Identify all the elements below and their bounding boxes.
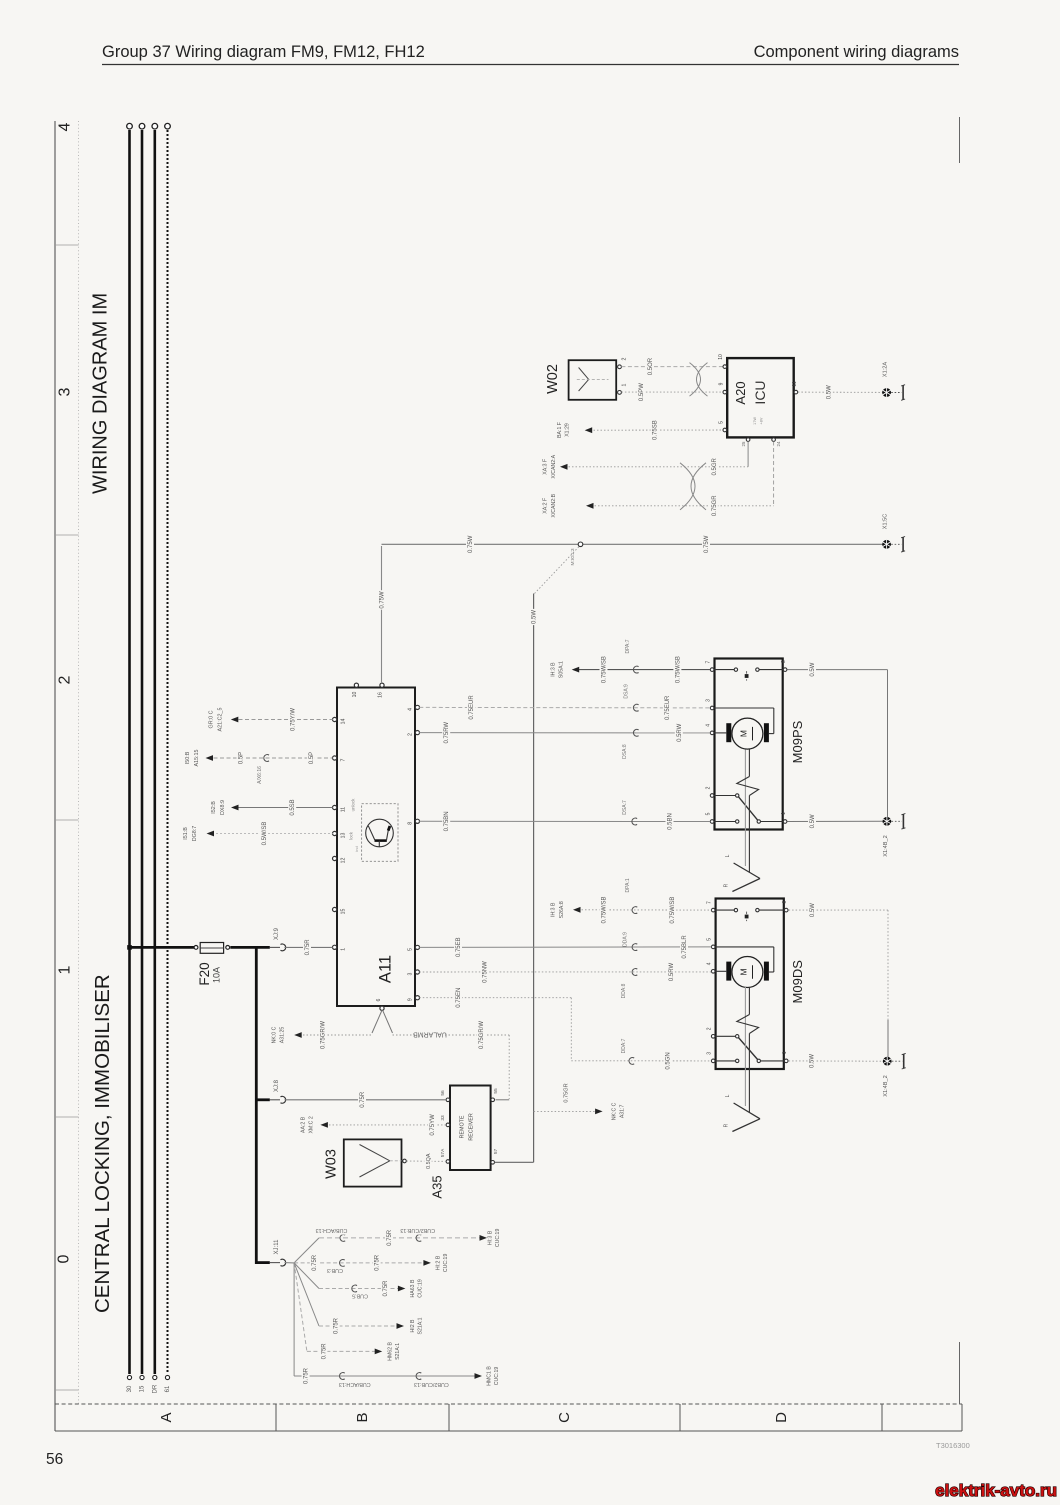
- svg-text:X/CAN2:A: X/CAN2:A: [551, 454, 557, 478]
- svg-text:A: A: [158, 1412, 175, 1422]
- svg-text:DPA:1: DPA:1: [625, 878, 631, 892]
- svg-text:0.5W: 0.5W: [827, 385, 833, 399]
- svg-text:HA63 B: HA63 B: [410, 1279, 416, 1297]
- svg-text:9: 9: [719, 382, 725, 385]
- svg-text:0.75W/SB: 0.75W/SB: [602, 896, 608, 923]
- svg-text:5: 5: [719, 421, 725, 424]
- svg-text:S05A:1: S05A:1: [558, 661, 564, 678]
- svg-text:W03: W03: [323, 1149, 339, 1179]
- svg-text:CUB/ACH:13: CUB/ACH:13: [339, 1381, 371, 1387]
- svg-text:CUC:19: CUC:19: [443, 1254, 449, 1273]
- svg-text:M:IG1:3: M:IG1:3: [570, 548, 576, 565]
- svg-text:0.5W: 0.5W: [810, 662, 816, 676]
- svg-text:1: 1: [781, 812, 787, 815]
- svg-text:4: 4: [56, 122, 73, 131]
- svg-text:15: 15: [140, 1385, 146, 1392]
- svg-text:8: 8: [782, 900, 788, 903]
- A11 bottom pin 6: [376, 998, 384, 1010]
- A11 key switch symbol: [348, 798, 398, 861]
- wire A35 pin33 to AA:2 B XM:C 2: [300, 1114, 446, 1137]
- svg-text:A15:15: A15:15: [194, 749, 200, 766]
- svg-text:11: 11: [792, 381, 798, 386]
- wire XJ:8 to A35 pin56 0.75R: [285, 1090, 447, 1110]
- title WIRING DIAGRAM IM: [90, 293, 112, 494]
- wire A11 pin3 to M09DS pin4 0.75NW: [419, 961, 711, 999]
- svg-text:12: 12: [340, 858, 346, 864]
- svg-text:6: 6: [376, 998, 382, 1001]
- svg-text:HI2 B: HI2 B: [410, 1319, 416, 1333]
- M09DS internal door switch: [716, 908, 784, 921]
- svg-text:2: 2: [407, 733, 413, 736]
- svg-text:WIRING DIAGRAM IM: WIRING DIAGRAM IM: [90, 293, 112, 494]
- svg-text:1: 1: [340, 948, 346, 951]
- svg-text:CUB:5: CUB:5: [352, 1293, 368, 1299]
- svg-text:0.75W/SB: 0.75W/SB: [675, 656, 681, 683]
- wire A11 pin4 to M09PS pin3 0.75EUR: [419, 684, 710, 721]
- svg-text:0.5RW: 0.5RW: [669, 963, 675, 982]
- svg-text:33: 33: [440, 1115, 446, 1121]
- M09PS internal lock switch: [715, 794, 783, 823]
- svg-text:0.75W: 0.75W: [380, 591, 386, 609]
- svg-text:IH:3 B: IH:3 B: [550, 902, 556, 917]
- svg-text:HI:3 B: HI:3 B: [488, 1230, 494, 1245]
- title CENTRAL LOCKING, IMMOBILISER: [91, 974, 114, 1313]
- svg-text:A11: A11: [377, 955, 395, 983]
- frame scale number 0: [55, 1254, 72, 1263]
- svg-text:7: 7: [706, 660, 712, 663]
- svg-text:X1:4B_2: X1:4B_2: [883, 835, 889, 856]
- svg-text:DPA:7: DPA:7: [625, 639, 631, 653]
- frame column letter D: [773, 1412, 790, 1423]
- svg-text:M09PS: M09PS: [790, 720, 805, 763]
- svg-text:XJ:8: XJ:8: [274, 1079, 280, 1092]
- svg-text:0.5QA: 0.5QA: [426, 1153, 432, 1169]
- wire W02 pin2 to A20 pin10 0.5OR: [621, 357, 722, 377]
- wire fan XJ:11 feed: [285, 1262, 295, 1264]
- frame bottom band: [55, 1404, 962, 1431]
- svg-text:0.75SB: 0.75SB: [653, 420, 659, 440]
- A11 left pins: [333, 717, 347, 950]
- frame scale number 4: [56, 122, 73, 131]
- svg-text:X1:4B_2: X1:4B_2: [883, 1075, 889, 1096]
- junction XJ:9: [270, 927, 286, 950]
- svg-text:DDA:8: DDA:8: [621, 983, 627, 998]
- svg-text:0.75R: 0.75R: [321, 1343, 327, 1360]
- M09PS internal door switch: [715, 668, 783, 681]
- svg-text:DX8:9: DX8:9: [220, 800, 226, 815]
- svg-text:M: M: [738, 968, 748, 975]
- svg-text:0.5W: 0.5W: [532, 610, 538, 624]
- bus bar DR: [152, 123, 158, 1393]
- net name UALARMB: [413, 1031, 447, 1040]
- wire A11 pin2 to M09PS pin4 0.75RW: [419, 721, 710, 759]
- svg-text:CUB/ACH:13: CUB/ACH:13: [316, 1227, 348, 1233]
- wire fan branch 5 to HM62 B S21A:1: [294, 1263, 401, 1361]
- junction XJ:11: [270, 1239, 286, 1266]
- svg-text:CUB:3: CUB:3: [327, 1267, 343, 1273]
- svg-text:2: 2: [56, 675, 73, 684]
- svg-text:R: R: [724, 883, 730, 887]
- wire fan branch 6 to HMC1 B CUC:19: [294, 1263, 500, 1389]
- A20 bottom pins: [741, 438, 781, 447]
- frame scale number 3: [56, 387, 73, 396]
- ground X1:2A: [882, 362, 905, 401]
- wire A20 CAN low to XA:2 F X/CAN2:B: [543, 442, 774, 518]
- svg-text:I50:B: I50:B: [185, 751, 191, 764]
- svg-text:NK:0 C: NK:0 C: [271, 1026, 277, 1043]
- svg-text:15: 15: [340, 909, 346, 915]
- svg-text:0.75RW: 0.75RW: [444, 722, 450, 744]
- svg-text:XM:C 2: XM:C 2: [309, 1116, 315, 1133]
- svg-text:7: 7: [707, 901, 713, 904]
- svg-text:11: 11: [340, 807, 346, 812]
- page header right title: [754, 43, 959, 61]
- svg-text:unlock: unlock: [350, 798, 355, 811]
- wire UALARMB right branch to A35 pin55: [393, 1020, 510, 1100]
- svg-text:A31:7: A31:7: [620, 1105, 626, 1119]
- svg-text:8: 8: [781, 660, 787, 663]
- wire fan branch 2 to HI:2 B CUC:19: [294, 1253, 449, 1274]
- watermark elektrik-avto.ru: [935, 1481, 1057, 1500]
- svg-text:57A: 57A: [440, 1148, 446, 1157]
- frame scale number 1: [56, 965, 73, 974]
- svg-text:57: 57: [493, 1149, 499, 1155]
- svg-text:3: 3: [407, 972, 413, 975]
- wire A11 pin13 to I51:B DG8:7: [183, 821, 333, 847]
- header rule: [102, 64, 959, 66]
- svg-text:13: 13: [340, 833, 346, 839]
- fuse F20 10A: [194, 943, 230, 986]
- wire M09PS pin8 pin1 to ground X1:4B_2: [788, 662, 888, 830]
- svg-text:7: 7: [340, 758, 346, 761]
- svg-text:CUB2/CUB:13: CUB2/CUB:13: [414, 1381, 449, 1387]
- wire M09DS pin7 to IH:3 B S26A:8: [550, 878, 711, 925]
- frame column letter C: [556, 1412, 573, 1423]
- wire bold feed from bus 30 to fuse F20: [127, 945, 194, 950]
- svg-text:5: 5: [706, 812, 712, 815]
- svg-text:0.75R: 0.75R: [360, 1091, 366, 1108]
- svg-text:NK:C C: NK:C C: [611, 1102, 617, 1120]
- svg-text:F20: F20: [197, 962, 212, 985]
- svg-text:0.5RW: 0.5RW: [677, 723, 683, 742]
- frame right border segments: [959, 117, 961, 1404]
- wire UALARMB left branch to NK:0 C A31:25: [271, 1020, 372, 1049]
- svg-text:0.5W/SB: 0.5W/SB: [262, 822, 268, 846]
- svg-text:0.75NW: 0.75NW: [482, 961, 488, 983]
- svg-text:3: 3: [707, 1052, 713, 1055]
- svg-text:0.75W/SB: 0.75W/SB: [602, 656, 608, 683]
- wire A20 pin5 to BA:1 F X1:29 0.75SB: [557, 419, 723, 442]
- connector A/X6:16 on A11 pin7 wire: [257, 755, 269, 784]
- svg-text:CUC:19: CUC:19: [494, 1367, 500, 1386]
- svg-text:REMOTE: REMOTE: [459, 1115, 465, 1138]
- svg-text:0.75R: 0.75R: [305, 939, 311, 956]
- svg-text:A20: A20: [733, 381, 748, 404]
- svg-text:0.5OR: 0.5OR: [648, 357, 654, 375]
- svg-text:0.75R: 0.75R: [383, 1280, 389, 1297]
- control unit A11 box: [337, 688, 415, 1007]
- M09PS pin circles: [706, 660, 787, 823]
- svg-text:I51:B: I51:B: [183, 827, 189, 840]
- svg-text:CUC:19: CUC:19: [417, 1279, 423, 1298]
- svg-text:Group 37 Wiring diagram FM9, F: Group 37 Wiring diagram FM9, FM12, FH12: [102, 43, 425, 61]
- twisted pair symbol W02 wires: [690, 363, 708, 397]
- svg-text:I52:B: I52:B: [211, 801, 217, 814]
- svg-text:5: 5: [707, 938, 713, 941]
- page number 56: [46, 1451, 63, 1468]
- svg-text:14: 14: [340, 719, 346, 725]
- M09DS pin circles: [707, 900, 788, 1062]
- svg-text:30: 30: [127, 1385, 133, 1392]
- svg-text:0.5GN: 0.5GN: [665, 1052, 671, 1069]
- svg-text:0.75GR/W: 0.75GR/W: [479, 1021, 485, 1049]
- svg-text:R: R: [724, 1123, 730, 1127]
- wire A11 pin16 up to 0.75W rail: [378, 546, 386, 683]
- A20 left pins 10 9 5: [718, 354, 726, 432]
- W02 pins 2 and 1: [618, 357, 628, 394]
- ground X1:4B_2 lower: [883, 1053, 906, 1096]
- svg-text:3: 3: [56, 387, 73, 396]
- svg-text:55: 55: [493, 1088, 499, 1094]
- wire branch to NK:C C A31:7 0.75GR: [534, 1083, 626, 1120]
- frame dotted guide line: [78, 121, 80, 1404]
- svg-text:16: 16: [377, 692, 383, 698]
- svg-text:10: 10: [718, 354, 724, 360]
- wire A11 pin11 to I52:B DX8:9: [211, 798, 333, 818]
- svg-text:HI:2 B: HI:2 B: [435, 1255, 441, 1270]
- svg-text:0.5SB: 0.5SB: [290, 799, 296, 815]
- svg-text:0.5BN: 0.5BN: [668, 813, 674, 830]
- svg-text:25: 25: [741, 441, 746, 446]
- svg-text:IH:3 B: IH:3 B: [550, 662, 556, 677]
- svg-text:0.75R: 0.75R: [334, 1317, 340, 1334]
- wire A35 pin57 to main 0.5W drop: [495, 1161, 534, 1163]
- svg-text:0.75R: 0.75R: [375, 1254, 381, 1271]
- svg-text:A/X6:16: A/X6:16: [257, 766, 263, 784]
- svg-text:56: 56: [46, 1451, 63, 1468]
- antenna W03 box: [323, 1139, 401, 1186]
- frame left border: [54, 121, 56, 1431]
- svg-text:AA:2 B: AA:2 B: [300, 1116, 306, 1133]
- frame tick marks: [55, 245, 79, 1390]
- svg-text:DSA:7: DSA:7: [622, 800, 628, 815]
- svg-text:0.75R: 0.75R: [304, 1367, 310, 1384]
- wire W02 pin1 to A20 pin9 0.5PW: [621, 382, 722, 402]
- wire A11 pin1 from junction XJ:9: [285, 938, 333, 958]
- door lock motor M09PS box: [715, 659, 805, 830]
- svg-text:+8V: +8V: [759, 417, 763, 424]
- svg-text:A21:C2_5: A21:C2_5: [217, 708, 223, 732]
- A11 top pins 10 and 16: [352, 683, 384, 698]
- svg-text:0.5PW: 0.5PW: [639, 383, 645, 401]
- svg-text:X1:5C: X1:5C: [882, 514, 888, 530]
- svg-text:ICU: ICU: [752, 380, 768, 404]
- svg-text:XJ:9: XJ:9: [274, 927, 280, 940]
- wire A11 pin5 to M09DS pin5 0.75EB: [419, 932, 711, 960]
- svg-text:ind: ind: [354, 846, 359, 851]
- svg-text:XA:2 F: XA:2 F: [543, 498, 549, 514]
- A35 left pins 56 33 57A: [440, 1090, 450, 1163]
- svg-text:56: 56: [440, 1090, 446, 1096]
- svg-text:X1:2A: X1:2A: [882, 362, 888, 378]
- svg-text:DSA:8: DSA:8: [622, 744, 628, 759]
- M09DS internal lock switch: [716, 1035, 784, 1063]
- svg-text:GR:0 C: GR:0 C: [208, 710, 214, 728]
- svg-text:2: 2: [621, 357, 627, 360]
- control unit A20 ICU box: [727, 358, 794, 437]
- svg-text:X1:29: X1:29: [564, 423, 570, 437]
- svg-text:T3016300: T3016300: [936, 1441, 970, 1450]
- svg-text:elektrik-avto.ru: elektrik-avto.ru: [935, 1481, 1057, 1500]
- frame column letter A: [158, 1412, 175, 1422]
- svg-text:0.5P: 0.5P: [309, 752, 315, 764]
- junction M:IG1:3 on 0.75W rail: [570, 542, 583, 566]
- svg-text:0.75BLR: 0.75BLR: [682, 935, 688, 959]
- svg-text:C: C: [556, 1412, 573, 1423]
- remote receiver A35 box: [429, 1086, 490, 1199]
- svg-text:S21A:1: S21A:1: [418, 1317, 424, 1334]
- wire A20 CAN high to XA:3 F X/CAN2:A: [543, 442, 748, 479]
- svg-text:0.5W: 0.5W: [810, 903, 816, 917]
- svg-text:0.5GR: 0.5GR: [712, 457, 718, 475]
- svg-text:0.5W: 0.5W: [810, 814, 816, 828]
- svg-text:UALARMB: UALARMB: [413, 1031, 447, 1038]
- svg-text:17W: 17W: [753, 417, 757, 425]
- svg-text:3: 3: [706, 699, 712, 702]
- svg-text:L: L: [725, 854, 731, 857]
- svg-text:CENTRAL LOCKING, IMMOBILISER: CENTRAL LOCKING, IMMOBILISER: [91, 974, 114, 1313]
- svg-text:24: 24: [776, 441, 781, 446]
- svg-text:W02: W02: [545, 364, 561, 394]
- wire A11 pin8 to M09PS pin5 0.75BN: [419, 800, 710, 833]
- wire A11 pin6 fork: [372, 1010, 393, 1033]
- svg-text:S26A:8: S26A:8: [559, 901, 565, 918]
- ground X1:4B_2 upper: [883, 814, 906, 857]
- wire A11 pin9 to M09DS pin3 0.75EN: [419, 986, 711, 1070]
- svg-text:BA:1 F: BA:1 F: [557, 422, 563, 438]
- svg-text:0.5P: 0.5P: [239, 752, 245, 764]
- svg-text:9: 9: [407, 998, 413, 1001]
- svg-text:61: 61: [165, 1385, 171, 1392]
- svg-text:5: 5: [407, 948, 413, 951]
- svg-text:1: 1: [782, 1051, 788, 1054]
- wire A11 pin14 to GR:0 C A21:C2_5: [208, 707, 332, 733]
- svg-text:10: 10: [352, 692, 358, 698]
- svg-text:0.5W: 0.5W: [810, 1054, 816, 1068]
- svg-text:DDA:9: DDA:9: [622, 932, 628, 947]
- wire fan branch 4 to HI2 B S21A:1: [294, 1263, 423, 1336]
- svg-text:0.75GR: 0.75GR: [712, 495, 718, 516]
- svg-text:4: 4: [707, 962, 713, 965]
- svg-text:0.75EUR: 0.75EUR: [469, 695, 475, 720]
- svg-text:8: 8: [407, 822, 413, 825]
- wire W03 to A35 pin57A 0.5QA: [406, 1152, 446, 1170]
- svg-text:A35: A35: [429, 1175, 444, 1198]
- svg-text:DDA:7: DDA:7: [621, 1038, 627, 1053]
- svg-text:M: M: [738, 730, 748, 737]
- svg-text:0.75GR/W: 0.75GR/W: [321, 1021, 327, 1049]
- bus bar 15: [139, 123, 145, 1392]
- wire 0.75W rail to ground X1:5C: [382, 535, 884, 555]
- svg-text:DR: DR: [152, 1384, 158, 1393]
- A11 right pins: [407, 705, 419, 1001]
- frame scale number 2: [56, 675, 73, 684]
- wire 0.5W vertical drop from M:IG1:3 to A35 pin57: [530, 546, 580, 1162]
- M09DS actuator shaft and fork: [724, 987, 761, 1132]
- M09PS motor M: [715, 708, 774, 749]
- bus bar 61: [165, 123, 171, 1392]
- svg-text:2: 2: [706, 786, 712, 789]
- svg-text:0.75YW: 0.75YW: [430, 1114, 436, 1136]
- wire A11 pin7 to I50:B A15:15: [185, 749, 333, 766]
- svg-text:HM62 B: HM62 B: [387, 1341, 393, 1360]
- svg-text:0.75W/SB: 0.75W/SB: [670, 897, 676, 924]
- svg-text:A31:25: A31:25: [280, 1027, 286, 1044]
- svg-text:10A: 10A: [212, 967, 222, 983]
- wire A20 pin11 to ground X1:2A 0.5W: [798, 384, 883, 400]
- svg-text:0.75EB: 0.75EB: [456, 937, 462, 957]
- svg-text:B: B: [354, 1412, 371, 1422]
- junction XJ:8: [270, 1079, 286, 1103]
- svg-text:L: L: [725, 1094, 731, 1097]
- svg-text:DG8:7: DG8:7: [192, 826, 198, 842]
- svg-text:0: 0: [55, 1254, 72, 1263]
- svg-text:lock: lock: [348, 831, 353, 840]
- plate number T3016300: [936, 1441, 970, 1450]
- svg-text:1: 1: [621, 383, 627, 386]
- svg-text:0.75EN: 0.75EN: [456, 988, 462, 1008]
- antenna W02 box: [545, 360, 616, 400]
- twisted pair symbol CAN wires: [680, 463, 706, 510]
- wire bold trunk from fuse to junctions XJ:9 XJ:8 XJ:11: [230, 946, 269, 1264]
- svg-text:1: 1: [56, 965, 73, 974]
- wire fan branch 1 to HI:3 B CUC:19: [294, 1227, 501, 1263]
- svg-text:XA:3 F: XA:3 F: [543, 459, 549, 475]
- M09DS motor M: [716, 947, 774, 988]
- svg-text:0.75W: 0.75W: [704, 535, 710, 553]
- svg-text:DSA:9: DSA:9: [624, 684, 630, 699]
- svg-text:0.75W: 0.75W: [468, 535, 474, 553]
- W03 pin: [403, 1159, 407, 1163]
- page header left title: [102, 43, 425, 61]
- svg-text:0.75EUR: 0.75EUR: [665, 695, 671, 720]
- svg-text:M09DS: M09DS: [790, 960, 805, 1004]
- door lock motor M09DS box: [716, 899, 805, 1070]
- svg-text:RECEIVER: RECEIVER: [468, 1113, 474, 1141]
- svg-text:D: D: [773, 1412, 790, 1423]
- M09PS actuator shaft and fork: [724, 750, 761, 892]
- svg-text:2: 2: [707, 1027, 713, 1030]
- wire fan branch 3 to HA63 B CUC:19: [294, 1263, 423, 1300]
- svg-text:CUC:19: CUC:19: [495, 1229, 501, 1248]
- svg-text:S21A:1: S21A:1: [395, 1343, 401, 1360]
- ground X1:5C: [882, 514, 905, 552]
- svg-text:0.75GR: 0.75GR: [563, 1083, 569, 1102]
- A35 right pins 55 57: [491, 1088, 499, 1164]
- svg-text:0.75Y/W: 0.75Y/W: [290, 708, 296, 731]
- svg-text:4: 4: [706, 724, 712, 727]
- A20 right pin 11: [792, 381, 798, 394]
- svg-text:0.75BN: 0.75BN: [444, 811, 450, 831]
- frame column letter B: [354, 1412, 371, 1422]
- svg-text:0.75R: 0.75R: [312, 1254, 318, 1271]
- wire M09PS pin7 to IH:3 B S05A:1: [550, 639, 710, 684]
- svg-text:0.75R: 0.75R: [387, 1229, 393, 1246]
- svg-text:CUB2/CUB:13: CUB2/CUB:13: [400, 1227, 435, 1233]
- bus bar 30: [127, 123, 133, 1392]
- svg-text:X/CAN2:B: X/CAN2:B: [551, 493, 557, 517]
- svg-text:4: 4: [407, 708, 413, 711]
